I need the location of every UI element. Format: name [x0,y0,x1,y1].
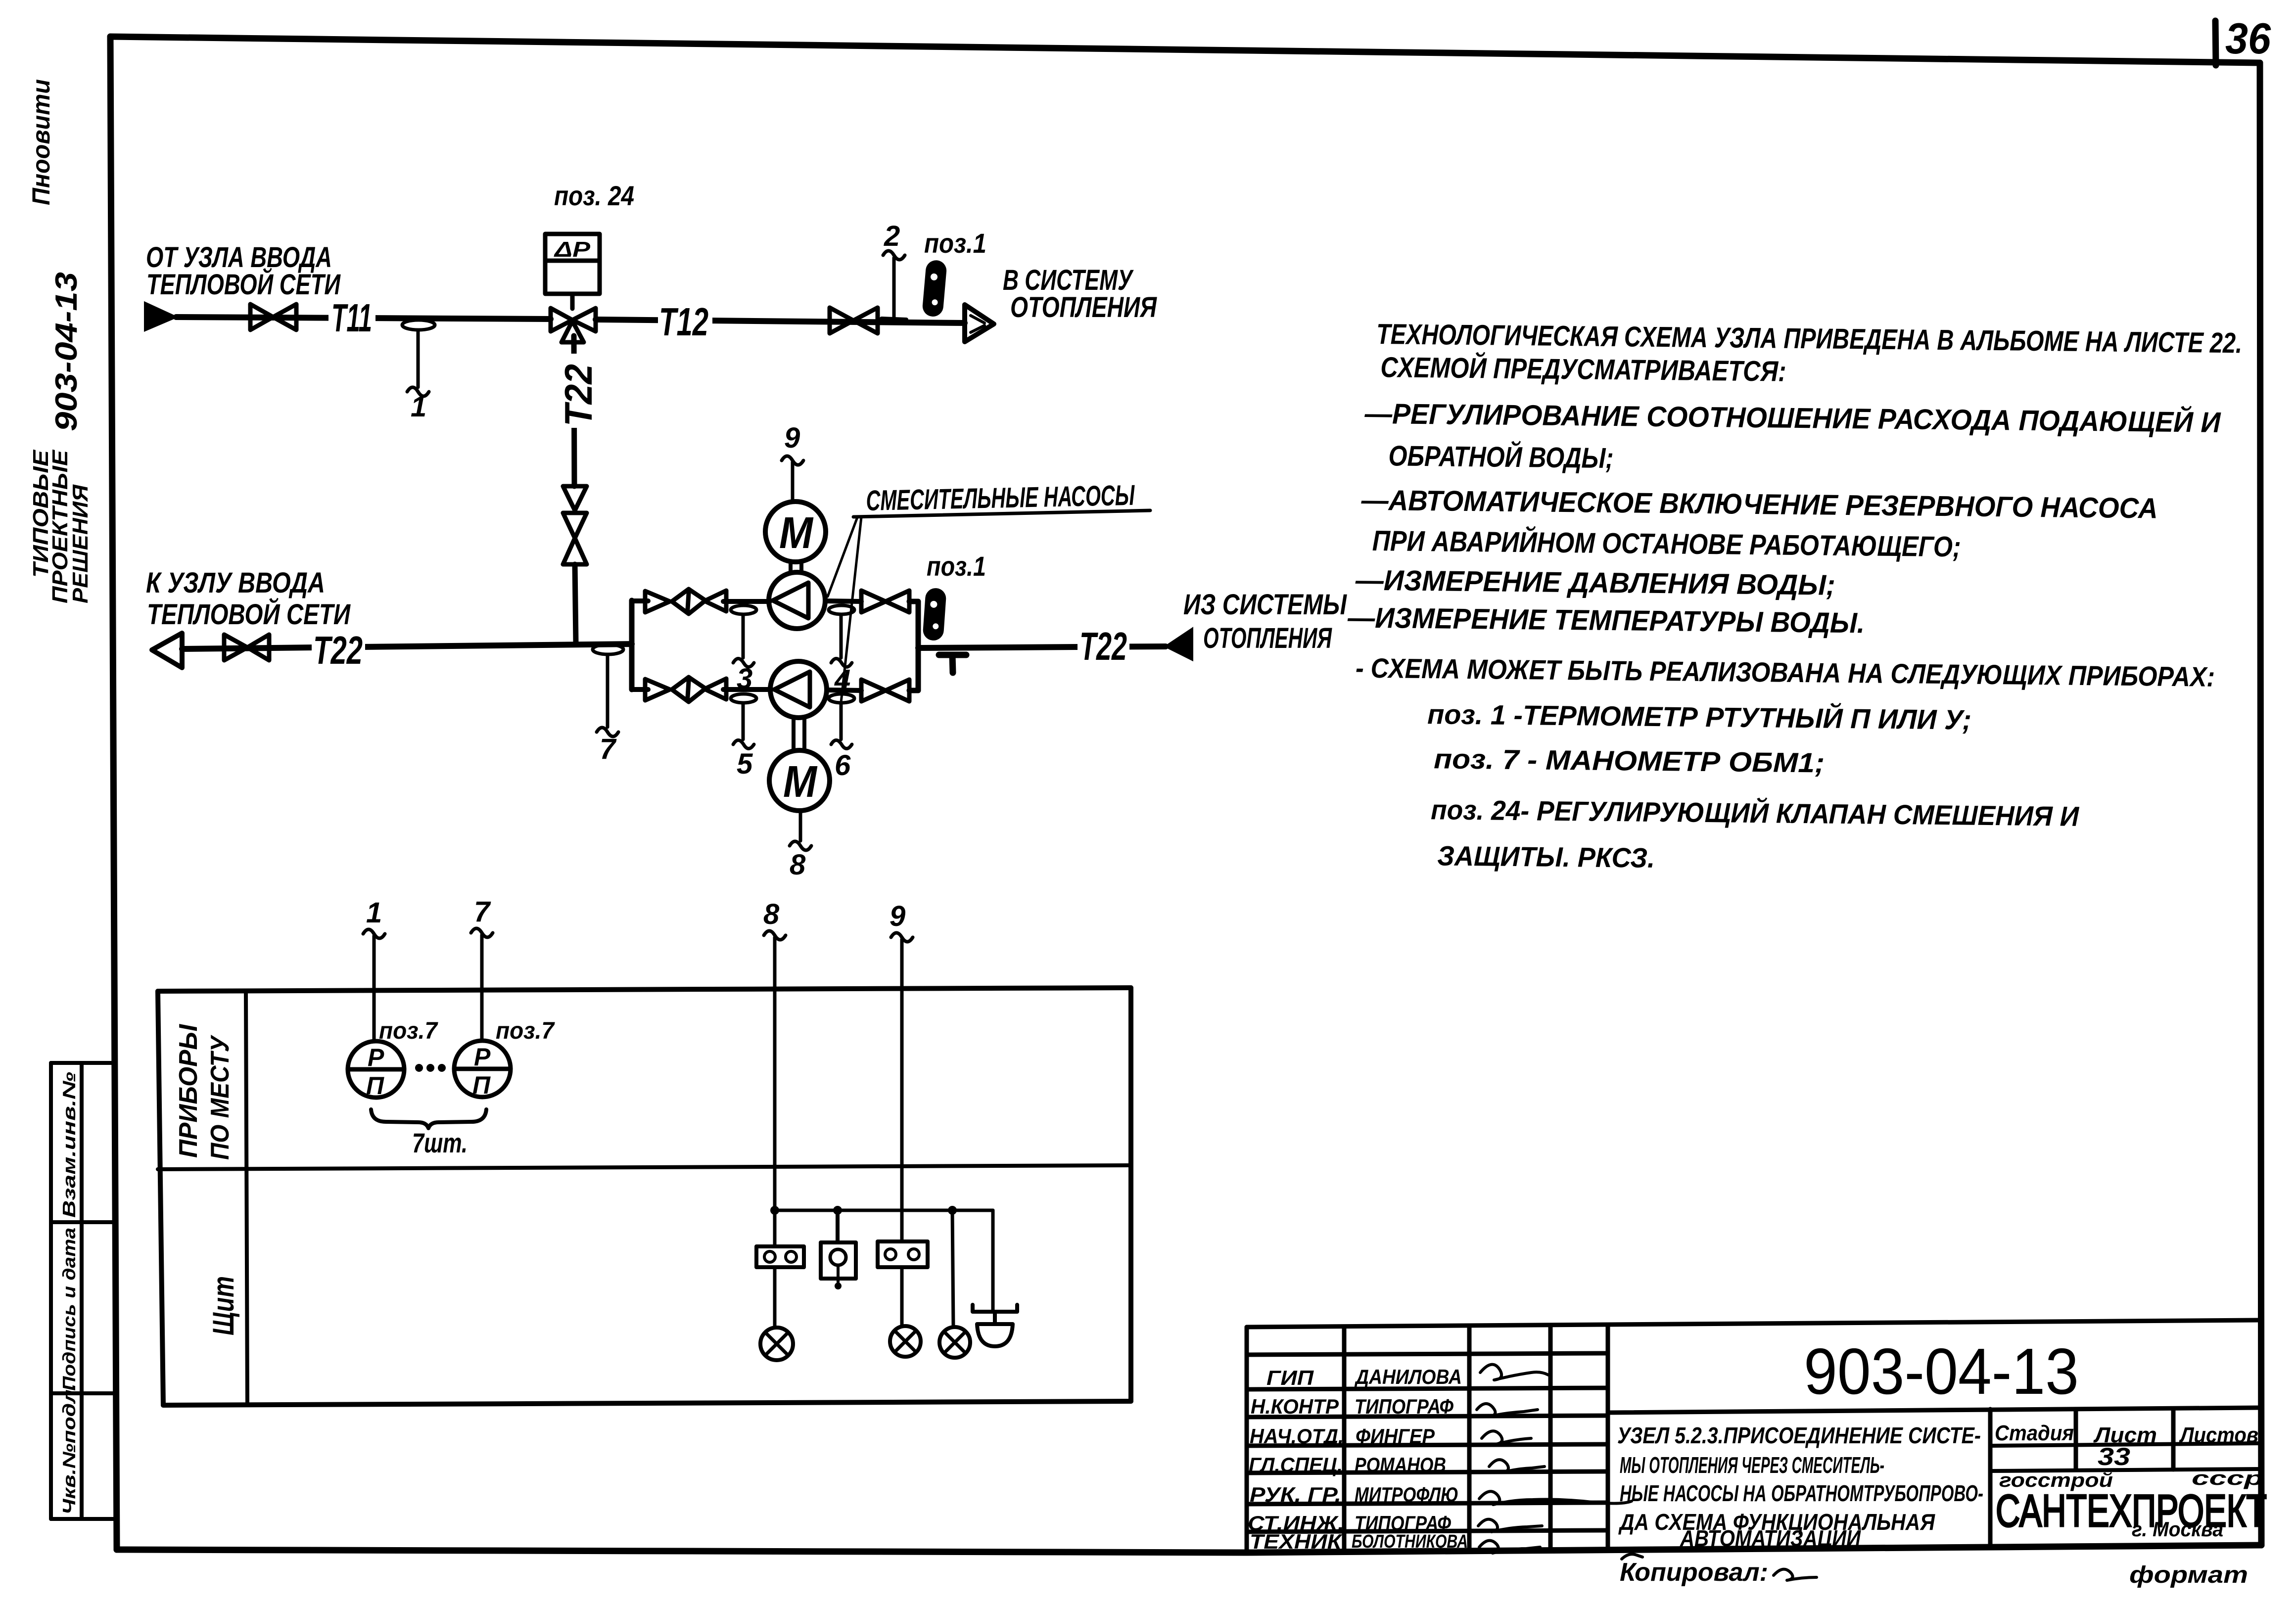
underline of pump label [853,510,1150,517]
motor M top [765,502,826,562]
valve upper discharge [861,591,909,612]
valve on T12 [830,308,878,333]
temperature point T mark [939,655,966,673]
svg-text:Т22: Т22 [1079,624,1127,668]
bell [973,1305,1017,1346]
valve on return [224,635,269,660]
panel bus wire [775,1209,993,1212]
svg-text:Т12: Т12 [659,300,708,344]
svg-text:ТИПОГРАФ: ТИПОГРАФ [1355,1395,1453,1418]
svg-text:ГИП: ГИП [1266,1366,1314,1389]
wire to lamp 3 [952,1210,953,1327]
svg-text:—ИЗМЕРЕНИЕ ДАВЛЕНИЯ ВОДЫ;: —ИЗМЕРЕНИЕ ДАВЛЕНИЯ ВОДЫ; [1355,564,1836,601]
svg-text:Копировал:: Копировал: [1620,1558,1768,1587]
svg-text:ПРИ АВАРИЙНОМ ОСТАНОВЕ РАБОТАЮ: ПРИ АВАРИЙНОМ ОСТАНОВЕ РАБОТАЮЩЕГО; [1372,524,1961,563]
wire pump2 discharge [827,690,861,690]
svg-text:РУК. ГР.: РУК. ГР. [1250,1483,1341,1506]
svg-text:САНТЕХПРОЕКТ: САНТЕХПРОЕКТ [1996,1486,2267,1536]
tap to gauge 5 [731,694,756,780]
wire lower suction [632,687,771,692]
manometer 1 (P/П) [348,1041,404,1098]
svg-text:2: 2 [884,220,900,252]
svg-text:МЫ ОТОПЛЕНИЯ ЧЕРЕЗ СМЕСИТЕЛЬ-: МЫ ОТОПЛЕНИЯ ЧЕРЕЗ СМЕСИТЕЛЬ- [1620,1452,1884,1478]
svg-text:1: 1 [366,897,382,929]
arrow to heating system [965,305,994,342]
svg-text:8: 8 [790,849,806,881]
svg-text:АВТОМАТИЗАЦИИ: АВТОМАТИЗАЦИИ [1680,1525,1861,1551]
svg-text:Т22: Т22 [313,628,363,672]
valve lower discharge [861,680,909,701]
signal line 9 [890,900,913,1326]
pump 2 [770,661,827,718]
svg-text:33: 33 [2098,1443,2130,1470]
svg-text:РЕШЕНИЯ: РЕШЕНИЯ [68,484,93,603]
open arrow to heat network [152,633,182,668]
svg-text:БОЛОТНИКОВА: БОЛОТНИКОВА [1352,1531,1468,1552]
svg-text:Н.КОНТР: Н.КОНТР [1251,1395,1339,1418]
svg-text:ДАНИЛОВА: ДАНИЛОВА [1354,1365,1462,1388]
svg-text:Листов: Листов [2179,1423,2258,1447]
svg-text:ЗАЩИТЫ. РКСЗ.: ЗАЩИТЫ. РКСЗ. [1437,840,1655,873]
left margin rotated: типовые проектные решения [29,449,93,603]
page number 36 [2215,14,2271,65]
signal line 1 [363,897,385,1042]
svg-text:г. Москва: г. Москва [2132,1517,2223,1541]
left margin small table [51,1063,114,1519]
wire riser T22 [574,336,574,486]
tap to gauge 3 [731,605,756,695]
lamp 1 [760,1328,793,1360]
svg-text:8: 8 [763,898,780,930]
valves lower branch [645,677,726,702]
thermometer поз.1 on T12 [922,259,947,317]
svg-text:Стадия: Стадия [1995,1421,2074,1445]
svg-text:ОБРАТНОЙ ВОДЫ;: ОБРАТНОЙ ВОДЫ; [1388,439,1614,474]
svg-text:ТЕПЛОВОЙ СЕТИ: ТЕПЛОВОЙ СЕТИ [147,598,351,631]
svg-text:К УЗЛУ ВВОДА: К УЗЛУ ВВОДА [146,567,325,599]
tap to gauge 4 [829,605,854,696]
push button box [821,1210,856,1283]
svg-text:П: П [366,1072,384,1100]
svg-text:ОТОПЛЕНИЯ: ОТОПЛЕНИЯ [1010,291,1157,323]
svg-text:поз.1: поз.1 [924,228,986,259]
svg-text:поз.1: поз.1 [927,551,986,582]
brace 7 pcs [371,1109,486,1128]
manometer 2 (P/П) [454,1041,511,1097]
svg-text:Р: Р [368,1044,384,1071]
svg-text:поз.7: поз.7 [496,1018,555,1044]
wire T12 [596,320,965,323]
svg-text:903-04-13: 903-04-13 [49,272,84,431]
wire pump1 discharge [825,601,861,601]
svg-text:Т11: Т11 [331,296,372,340]
svg-text:36: 36 [2225,14,2271,63]
svg-text:ΔР: ΔР [554,237,591,262]
svg-text:ИЗ СИСТЕМЫ: ИЗ СИСТЕМЫ [1183,589,1347,621]
thermometer поз.1 on T22 [922,588,946,642]
terminal box 2 [878,1241,928,1267]
motor M bottom [769,750,830,811]
node: left header [629,600,635,689]
leader lines to pumps [828,517,857,597]
svg-text:9: 9 [890,900,905,932]
svg-text:—ИЗМЕРЕНИЕ ТЕМПЕРАТУРЫ ВОДЫ.: —ИЗМЕРЕНИЕ ТЕМПЕРАТУРЫ ВОДЫ. [1347,601,1865,639]
lamp 2 [890,1326,921,1357]
svg-text:П: П [472,1071,491,1099]
svg-text:6: 6 [835,749,851,781]
tap to gauge 1 [402,320,435,423]
node: right header [909,601,918,690]
wire riser to return pipe [575,564,576,643]
svg-text:7: 7 [474,896,491,928]
tap to gauge 7 [593,644,623,765]
terminal box 1 [756,1246,804,1267]
svg-text:ПРИБОРЫ: ПРИБОРЫ [174,1024,203,1158]
svg-text:9: 9 [784,422,800,454]
wire T11 [176,317,551,319]
svg-text:ТЕХНИК: ТЕХНИК [1250,1530,1343,1553]
svg-text:7шт.: 7шт. [412,1127,468,1158]
shaft bottom [794,718,804,750]
svg-text:НАЧ.ОТД.: НАЧ.ОТД. [1250,1424,1344,1448]
regulator ДР box [545,234,600,309]
svg-text:ПО МЕСТУ: ПО МЕСТУ [206,1035,234,1160]
svg-text:Щит: Щит [207,1276,240,1335]
svg-text:поз.7: поз.7 [379,1018,438,1044]
signal line 8 [763,898,786,1328]
svg-text:ГЛ.СПЕЦ.: ГЛ.СПЕЦ. [1249,1453,1343,1476]
valve on T11 [250,304,296,330]
svg-text:М: М [779,508,814,558]
funnel arrow from heat network [145,303,176,330]
signal line 9 up from motor [782,422,803,502]
wire to bell [991,1210,995,1312]
svg-text:РОМАНОВ: РОМАНОВ [1355,1453,1446,1476]
svg-text:5: 5 [737,748,753,780]
dots between manometers [415,1064,423,1072]
chart frame [158,988,1131,1405]
svg-text:УЗЕЛ 5.2.3.ПРИСОЕДИНЕНИЕ СИСТЕ: УЗЕЛ 5.2.3.ПРИСОЕДИНЕНИЕ СИСТЕ- [1617,1422,1981,1448]
wire T22 out [918,646,1166,648]
svg-text:Чкв.№подл.: Чкв.№подл. [59,1383,79,1514]
svg-text:Подпись и дата: Подпись и дата [59,1228,79,1391]
svg-text:Т22: Т22 [557,364,600,426]
three-way control valve U24 [551,308,596,342]
svg-text:М: М [783,757,818,807]
pump 1 [769,572,825,629]
svg-text:7: 7 [600,733,617,765]
wire upper suction [632,601,770,601]
tap to gauge 6 [829,694,854,781]
svg-text:Пноовити: Пноовити [27,79,55,205]
svg-text:Взам.инв.№: Взам.инв.№ [59,1072,79,1218]
svg-text:ТЕПЛОВОЙ СЕТИ: ТЕПЛОВОЙ СЕТИ [146,268,341,301]
tap to gauge 2 [882,220,906,320]
check valve on riser [563,486,587,564]
signal line 7 [471,896,493,1041]
signatures squiggles [1477,1365,1632,1553]
valves upper branch [645,589,726,614]
svg-text:ОТОПЛЕНИЯ: ОТОПЛЕНИЯ [1203,622,1332,654]
svg-text:Р: Р [474,1043,491,1071]
svg-text:МИТРОФЛЮ: МИТРОФЛЮ [1355,1483,1458,1506]
funnel from heating system [1166,629,1192,660]
wire T22 return [182,644,632,649]
svg-text:поз. 1 -ТЕРМОМЕТР РТУТНЫЙ П: поз. 1 -ТЕРМОМЕТР РТУТНЫЙ П ИЛИ У; [1427,698,1972,735]
svg-text:поз. 24: поз. 24 [554,180,634,211]
svg-text:903-04-13: 903-04-13 [1804,1335,2079,1408]
svg-text:ФИНГЕР: ФИНГЕР [1356,1424,1435,1448]
svg-text:НЫЕ НАСОСЫ НА ОБРАТНОМТРУБОПРО: НЫЕ НАСОСЫ НА ОБРАТНОМТРУБОПРОВО- [1620,1480,1983,1506]
svg-text:формат: формат [2129,1562,2248,1588]
svg-text:1: 1 [411,391,426,423]
svg-text:СХЕМОЙ ПРЕДУСМАТРИВАЕТСЯ:: СХЕМОЙ ПРЕДУСМАТРИВАЕТСЯ: [1380,351,1786,388]
svg-text:поз. 7 - МАНОМЕТР ОБМ1;: поз. 7 - МАНОМЕТР ОБМ1; [1434,743,1825,778]
lamp 3 [939,1327,970,1358]
signal line 8 down from motor [790,811,811,881]
shaft top [791,562,801,573]
